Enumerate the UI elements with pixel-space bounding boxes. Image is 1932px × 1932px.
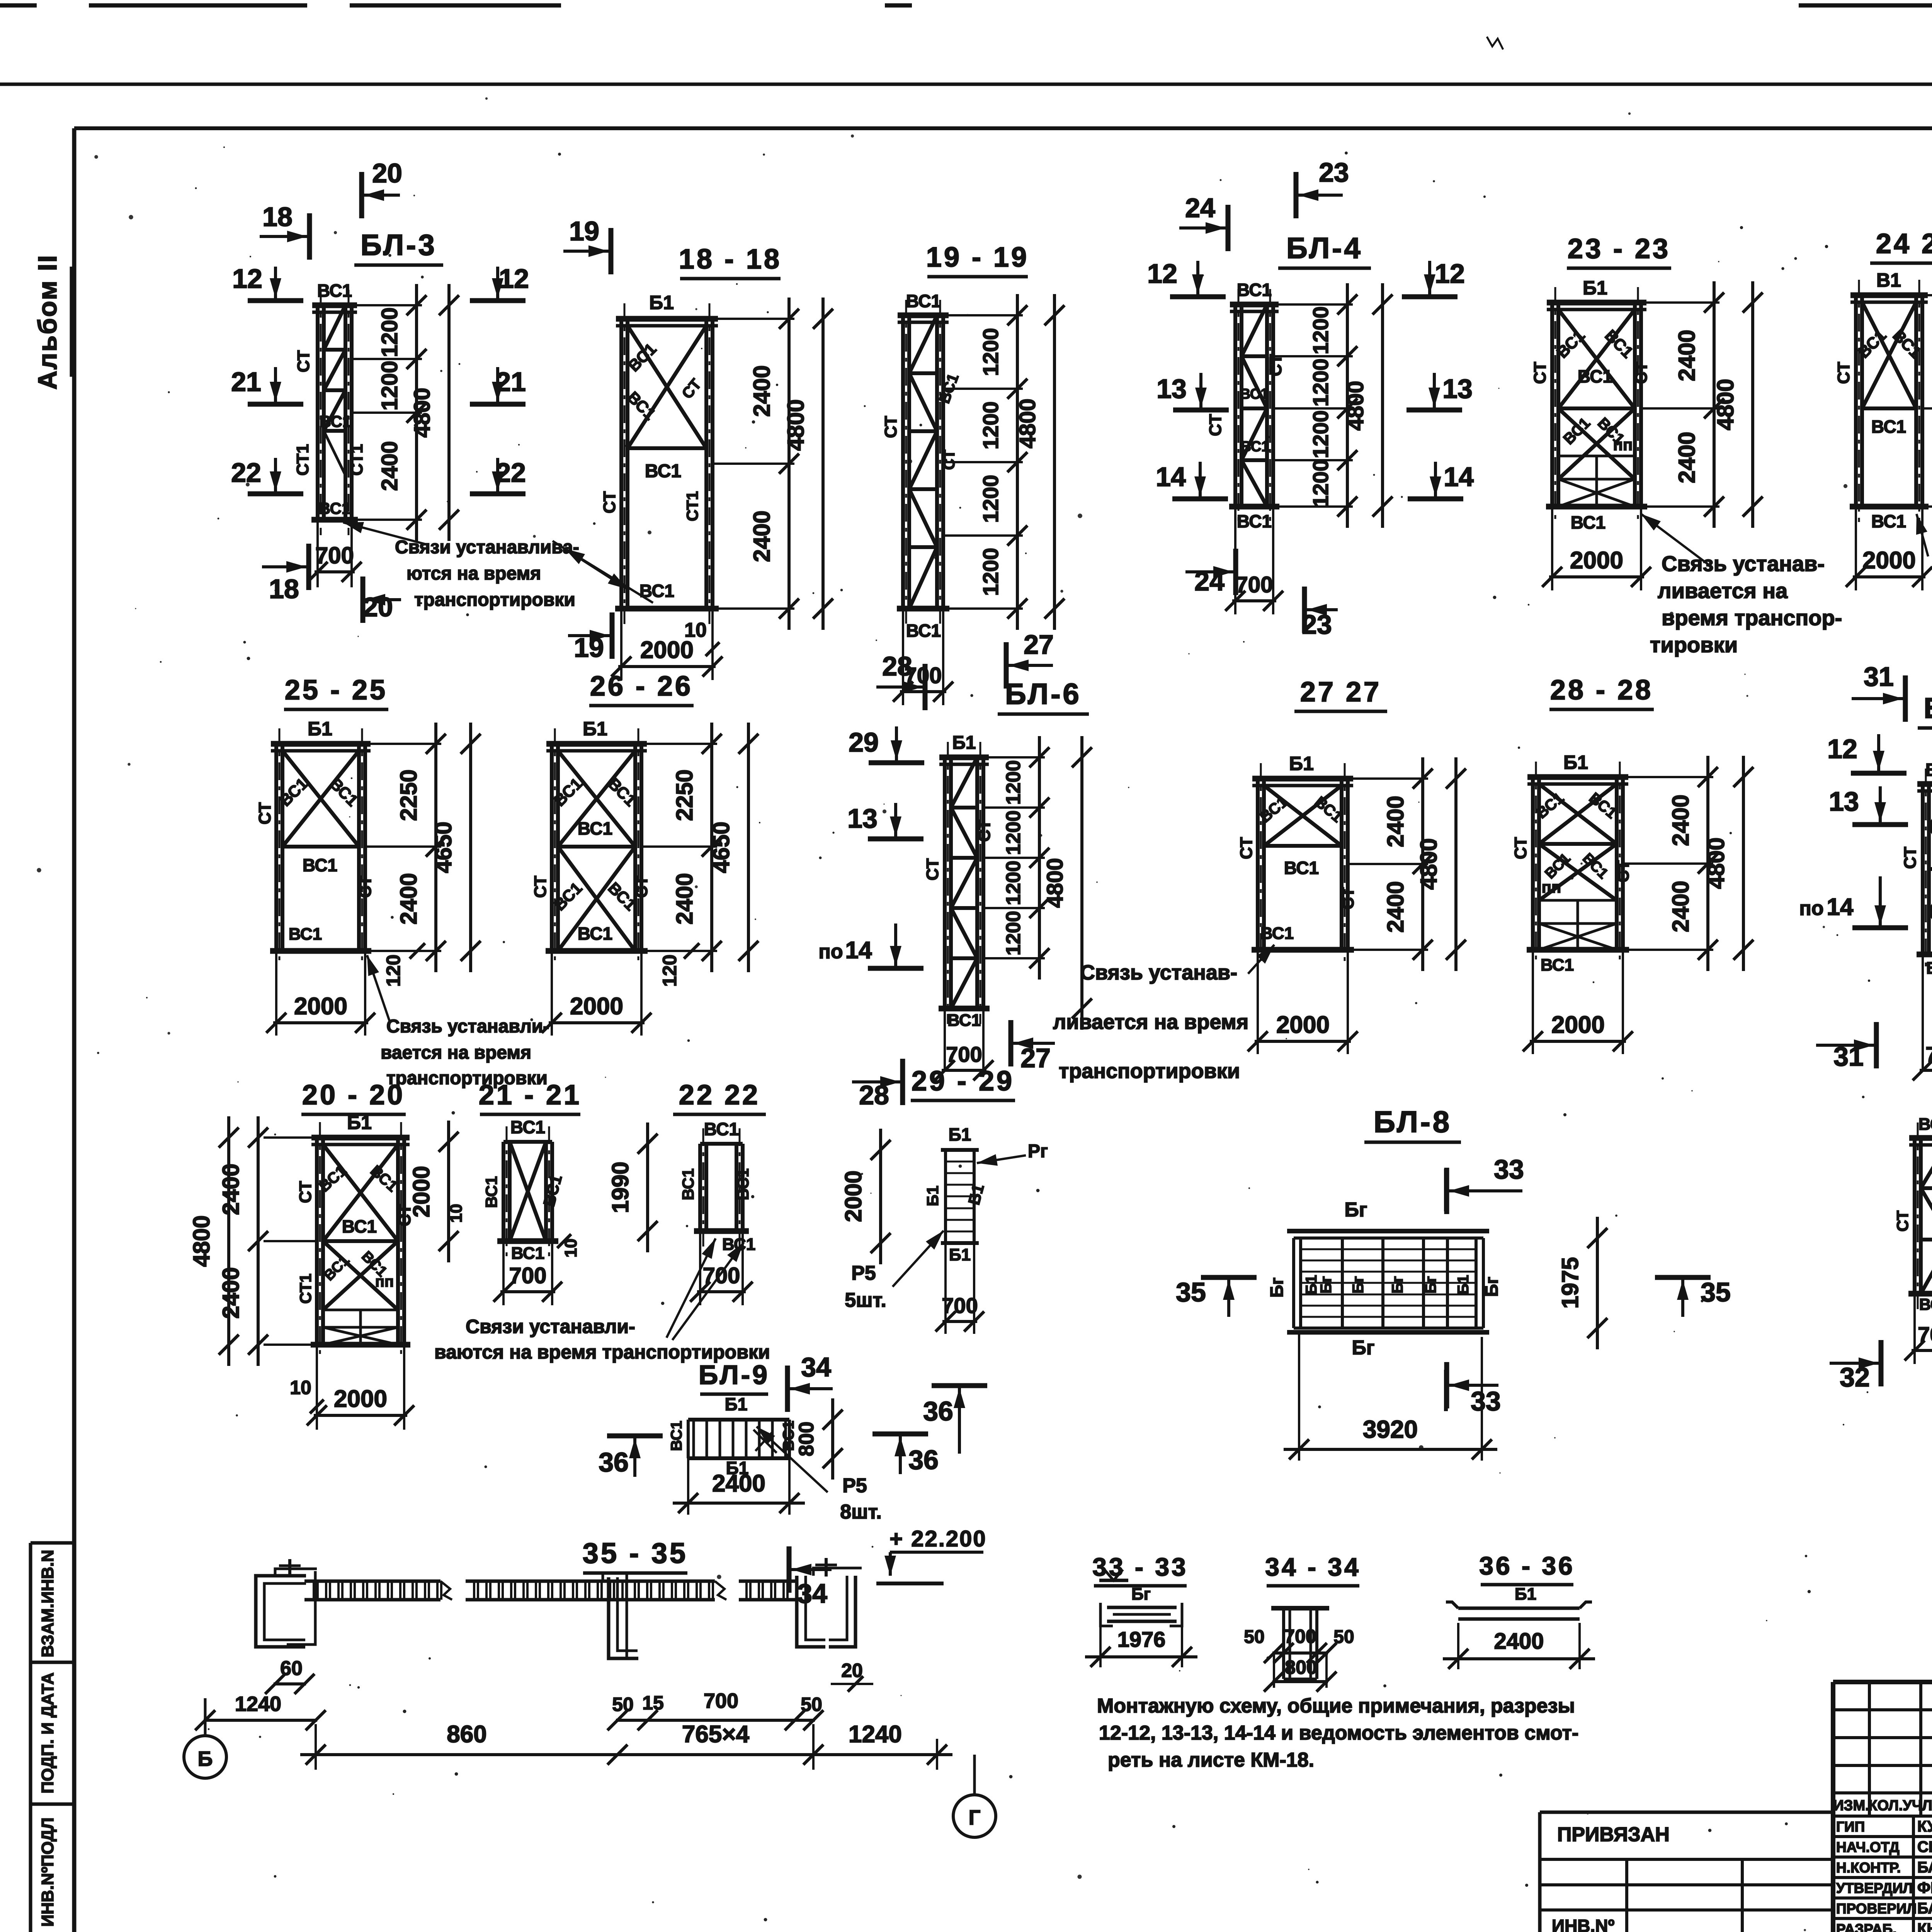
svg-text:18 - 18: 18 - 18	[679, 244, 782, 275]
svg-text:35: 35	[1176, 1277, 1206, 1307]
svg-text:35: 35	[1701, 1277, 1731, 1307]
svg-text:Б1: Б1	[1563, 752, 1588, 773]
svg-text:36: 36	[908, 1445, 939, 1475]
svg-text:ВС1: ВС1	[1240, 386, 1269, 402]
svg-text:22: 22	[231, 457, 261, 488]
svg-text:1200: 1200	[1308, 410, 1333, 459]
svg-text:СТ: СТ	[1632, 362, 1651, 384]
svg-text:700: 700	[942, 1293, 978, 1318]
svg-text:реть на листе КМ-18.: реть на листе КМ-18.	[1108, 1749, 1314, 1771]
svg-text:ВС1: ВС1	[1578, 366, 1612, 386]
svg-text:Бг: Бг	[1350, 1276, 1367, 1293]
svg-text:СТ: СТ	[1531, 362, 1549, 384]
svg-text:2400: 2400	[218, 1267, 244, 1318]
svg-text:700: 700	[509, 1263, 547, 1288]
svg-text:СТ: СТ	[600, 491, 619, 514]
svg-text:1200: 1200	[1308, 359, 1333, 407]
svg-text:СТ: СТ	[1206, 414, 1225, 436]
svg-text:ВС1: ВС1	[679, 1168, 697, 1200]
svg-text:ются на время: ются на время	[406, 563, 541, 584]
svg-text:ПРОВЕРИЛ: ПРОВЕРИЛ	[1836, 1901, 1917, 1917]
svg-text:2000: 2000	[570, 993, 623, 1020]
svg-text:2400: 2400	[1674, 330, 1700, 381]
svg-text:Н.КОНТР.: Н.КОНТР.	[1836, 1860, 1901, 1876]
svg-text:Бг: Бг	[1131, 1585, 1151, 1604]
svg-text:29: 29	[849, 727, 879, 757]
svg-text:СТ: СТ	[294, 350, 313, 372]
svg-text:ГИП: ГИП	[1836, 1819, 1865, 1835]
svg-text:Б1: Б1	[725, 1394, 748, 1414]
svg-text:2000: 2000	[294, 993, 347, 1020]
svg-text:120: 120	[383, 954, 404, 986]
svg-text:2000: 2000	[640, 637, 694, 663]
svg-text:1200: 1200	[978, 475, 1003, 523]
svg-text:860: 860	[447, 1721, 486, 1748]
svg-text:23: 23	[1319, 157, 1349, 187]
svg-text:2000: 2000	[408, 1166, 434, 1217]
svg-text:36: 36	[923, 1396, 953, 1426]
svg-text:БЛ-3: БЛ-3	[361, 229, 437, 262]
svg-text:50: 50	[612, 1694, 634, 1715]
svg-text:ПОДП. И ДАТА: ПОДП. И ДАТА	[38, 1672, 57, 1793]
svg-text:БЛ-6: БЛ-6	[1005, 678, 1082, 711]
svg-text:Бг: Бг	[1344, 1199, 1367, 1221]
svg-text:СТ1: СТ1	[296, 1274, 315, 1304]
svg-text:Б1: Б1	[1583, 277, 1607, 299]
svg-text:ВС1: ВС1	[1871, 511, 1906, 531]
svg-text:ИНВ.Nº: ИНВ.Nº	[1552, 1916, 1615, 1932]
svg-text:СТ: СТ	[356, 876, 375, 898]
svg-text:14: 14	[1156, 462, 1186, 492]
svg-text:2000: 2000	[1551, 1012, 1605, 1038]
svg-text:БАБУРИН: БАБУРИН	[1917, 1900, 1932, 1917]
svg-text:4800: 4800	[410, 388, 435, 437]
svg-text:700: 700	[704, 1689, 738, 1713]
svg-text:СТ: СТ	[255, 802, 274, 825]
svg-text:ФЕДОТОВ: ФЕДОТОВ	[1917, 1879, 1932, 1896]
svg-text:700: 700	[1236, 572, 1273, 597]
svg-text:4650: 4650	[430, 821, 456, 873]
svg-text:14: 14	[1827, 894, 1854, 920]
svg-text:4800: 4800	[1713, 379, 1738, 430]
svg-text:Связь устанав-: Связь устанав-	[1080, 961, 1237, 984]
svg-text:700: 700	[1925, 1042, 1932, 1066]
svg-text:СЕВОСТЬЯНОВ: СЕВОСТЬЯНОВ	[1917, 1838, 1932, 1855]
svg-text:Бг: Бг	[1481, 1277, 1502, 1297]
svg-text:РАЗРАБ.: РАЗРАБ.	[1836, 1921, 1896, 1932]
svg-text:Б1: Б1	[308, 718, 332, 740]
svg-text:ливается на время: ливается на время	[1053, 1010, 1248, 1034]
svg-text:700: 700	[1284, 1626, 1316, 1647]
svg-text:13: 13	[1829, 786, 1859, 816]
svg-text:2400: 2400	[672, 873, 697, 924]
svg-text:31: 31	[1864, 662, 1894, 692]
svg-text:ВС1: ВС1	[482, 1176, 500, 1208]
svg-text:Б1: Б1	[583, 718, 607, 740]
svg-text:1200: 1200	[1002, 861, 1025, 905]
svg-text:4800: 4800	[783, 399, 809, 451]
svg-text:2400: 2400	[749, 365, 775, 417]
svg-text:Бг: Бг	[1389, 1276, 1406, 1293]
svg-text:Г: Г	[969, 1806, 981, 1829]
svg-text:12: 12	[499, 264, 529, 294]
svg-text:СТ: СТ	[1511, 837, 1530, 859]
svg-text:21: 21	[231, 367, 261, 397]
svg-text:ВС1: ВС1	[511, 1244, 544, 1263]
svg-text:10: 10	[447, 1204, 466, 1223]
svg-text:34: 34	[801, 1352, 831, 1382]
svg-text:время транспор-: время транспор-	[1662, 605, 1842, 630]
svg-text:ВС1: ВС1	[289, 925, 322, 944]
svg-text:+ 22.200: + 22.200	[889, 1526, 986, 1551]
svg-text:1200: 1200	[377, 307, 402, 357]
svg-text:ВЗАМ.ИНВ.N: ВЗАМ.ИНВ.N	[38, 1550, 57, 1658]
svg-text:12: 12	[232, 264, 262, 294]
svg-text:50: 50	[1244, 1627, 1264, 1647]
svg-text:ВС1: ВС1	[1918, 1115, 1932, 1134]
svg-text:СТ: СТ	[1893, 1210, 1912, 1231]
svg-text:1200: 1200	[377, 361, 402, 410]
svg-text:СТ: СТ	[1338, 887, 1357, 910]
svg-text:ВС1: ВС1	[510, 1117, 545, 1137]
svg-text:4800: 4800	[1015, 398, 1040, 448]
svg-text:тировки: тировки	[1650, 633, 1738, 657]
svg-text:28: 28	[882, 651, 912, 681]
svg-text:БЛ-8: БЛ-8	[1374, 1105, 1452, 1139]
svg-text:ВС1: ВС1	[303, 855, 337, 875]
svg-text:34 - 34: 34 - 34	[1265, 1553, 1361, 1581]
svg-text:ВС1: ВС1	[578, 923, 612, 944]
svg-text:СТ: СТ	[1901, 847, 1920, 869]
svg-text:БАБУРИН: БАБУРИН	[1917, 1859, 1932, 1876]
svg-text:СТ: СТ	[881, 416, 900, 438]
svg-text:ВС1: ВС1	[1926, 959, 1932, 978]
svg-text:ВС1: ВС1	[906, 291, 941, 311]
svg-text:ПРИВЯЗАН: ПРИВЯЗАН	[1557, 1823, 1670, 1846]
svg-text:29 - 29: 29 - 29	[912, 1066, 1014, 1097]
svg-text:вается на время: вается на время	[381, 1043, 531, 1063]
svg-text:Бг: Бг	[1267, 1277, 1287, 1298]
svg-text:СТ: СТ	[632, 876, 651, 898]
svg-text:2400: 2400	[1383, 881, 1408, 932]
svg-text:СТ1: СТ1	[683, 491, 701, 521]
svg-text:18: 18	[262, 202, 293, 232]
svg-text:1240: 1240	[235, 1692, 281, 1716]
svg-text:СТ1: СТ1	[293, 444, 312, 476]
svg-text:ВС1: ВС1	[578, 818, 612, 838]
svg-text:5шт.: 5шт.	[845, 1289, 886, 1311]
svg-text:пп: пп	[1613, 435, 1633, 454]
svg-text:20: 20	[372, 158, 402, 188]
svg-text:ВС1: ВС1	[1237, 511, 1272, 531]
svg-text:ВС1: ВС1	[1919, 1295, 1932, 1313]
svg-text:13: 13	[1156, 374, 1187, 404]
svg-text:2400: 2400	[1383, 796, 1408, 847]
svg-text:1200: 1200	[978, 328, 1003, 376]
svg-text:800: 800	[1285, 1656, 1317, 1678]
svg-text:ВС1: ВС1	[704, 1119, 739, 1139]
svg-text:33: 33	[1494, 1154, 1524, 1184]
svg-text:пп: пп	[1542, 878, 1561, 896]
svg-text:ВС1: ВС1	[1260, 924, 1294, 943]
svg-text:ВС1: ВС1	[1871, 417, 1906, 437]
svg-text:В1: В1	[1876, 269, 1901, 291]
svg-text:18: 18	[269, 574, 299, 604]
svg-text:33 - 33: 33 - 33	[1092, 1553, 1188, 1581]
svg-text:Б1: Б1	[923, 1185, 942, 1206]
svg-text:ИЗМ.: ИЗМ.	[1833, 1798, 1869, 1814]
svg-text:26 - 26: 26 - 26	[590, 671, 693, 702]
svg-text:14: 14	[1444, 462, 1474, 492]
svg-text:ВС1: ВС1	[734, 1168, 752, 1200]
svg-text:23 - 23: 23 - 23	[1568, 233, 1670, 264]
svg-text:Связи устанавли-: Связи устанавли-	[466, 1316, 635, 1337]
svg-text:13: 13	[847, 803, 878, 833]
svg-text:Б1: Б1	[649, 292, 674, 313]
svg-text:Связи устанавлива-: Связи устанавлива-	[395, 537, 579, 558]
svg-text:по: по	[1799, 897, 1823, 920]
svg-text:700: 700	[1918, 1322, 1932, 1347]
svg-text:21 - 21: 21 - 21	[479, 1080, 582, 1111]
svg-text:24: 24	[1185, 193, 1215, 223]
svg-text:33: 33	[1471, 1386, 1501, 1416]
svg-text:КНЯЗЕВА: КНЯЗЕВА	[1917, 1920, 1932, 1932]
svg-text:4800: 4800	[1416, 838, 1442, 889]
svg-text:Б1: Б1	[949, 1245, 971, 1264]
svg-text:ВС1: ВС1	[906, 621, 941, 641]
svg-text:700: 700	[703, 1263, 740, 1288]
svg-text:Р5: Р5	[851, 1262, 876, 1284]
svg-text:10: 10	[290, 1377, 311, 1398]
svg-text:УТВЕРДИЛ: УТВЕРДИЛ	[1836, 1880, 1913, 1896]
svg-text:ВС1: ВС1	[947, 1011, 981, 1030]
svg-text:Б: Б	[198, 1747, 213, 1770]
svg-text:2400: 2400	[1668, 881, 1694, 932]
svg-text:Альбом II: Альбом II	[33, 254, 62, 390]
svg-text:20 - 20: 20 - 20	[302, 1080, 405, 1111]
svg-text:СТ: СТ	[923, 858, 942, 881]
svg-text:2000: 2000	[334, 1386, 387, 1412]
svg-text:765×4: 765×4	[682, 1721, 750, 1748]
svg-text:2250: 2250	[396, 769, 422, 821]
svg-text:1200: 1200	[1002, 760, 1025, 805]
svg-text:2000: 2000	[1570, 547, 1623, 574]
svg-text:4800: 4800	[1043, 858, 1068, 908]
svg-text:БЛ-9: БЛ-9	[699, 1360, 770, 1390]
svg-text:ВС1: ВС1	[1241, 439, 1270, 455]
svg-text:ВС1: ВС1	[319, 499, 350, 517]
svg-text:700: 700	[946, 1042, 982, 1066]
svg-text:700: 700	[315, 543, 354, 568]
svg-text:22 22: 22 22	[679, 1080, 760, 1111]
svg-text:12-12, 13-13, 14-14 и ведомост: 12-12, 13-13, 14-14 и ведомость элементо…	[1099, 1722, 1578, 1744]
svg-text:2000: 2000	[840, 1170, 866, 1222]
svg-text:2400: 2400	[377, 441, 402, 491]
svg-text:1200: 1200	[1308, 459, 1333, 508]
svg-text:15: 15	[642, 1692, 664, 1714]
svg-text:ВС1: ВС1	[1925, 760, 1932, 780]
svg-text:2400: 2400	[749, 510, 775, 562]
svg-text:СТ: СТ	[975, 820, 994, 842]
svg-text:2400: 2400	[218, 1163, 244, 1215]
svg-text:Бг: Бг	[1318, 1276, 1335, 1293]
svg-text:БЛ-7: БЛ-7	[1923, 692, 1932, 724]
svg-text:2400: 2400	[712, 1470, 765, 1497]
svg-text:по: по	[818, 940, 843, 963]
svg-text:транспортировки: транспортировки	[1059, 1060, 1240, 1083]
svg-text:24 24: 24 24	[1876, 228, 1932, 259]
svg-text:2000: 2000	[1862, 547, 1916, 574]
svg-text:4650: 4650	[708, 821, 734, 873]
svg-text:4800: 4800	[1343, 381, 1368, 430]
svg-text:120: 120	[659, 954, 680, 986]
svg-text:1975: 1975	[1557, 1257, 1583, 1308]
svg-text:2400: 2400	[1668, 794, 1694, 846]
svg-text:2400: 2400	[1674, 432, 1700, 483]
svg-text:19: 19	[569, 216, 599, 246]
svg-text:1200: 1200	[1002, 911, 1025, 956]
svg-text:3920: 3920	[1363, 1415, 1418, 1443]
svg-text:Связь устанавли-: Связь устанавли-	[386, 1016, 549, 1037]
svg-text:27: 27	[1020, 1043, 1051, 1073]
svg-text:СТ: СТ	[941, 450, 958, 470]
svg-text:СТ: СТ	[1834, 362, 1853, 384]
svg-text:Связь устанав-: Связь устанав-	[1662, 551, 1825, 576]
svg-text:Р5: Р5	[842, 1475, 867, 1497]
svg-text:КОЛ.УЧ: КОЛ.УЧ	[1868, 1798, 1922, 1814]
svg-text:ВС1: ВС1	[1237, 280, 1272, 300]
svg-text:Бг: Бг	[1422, 1276, 1439, 1293]
svg-text:27 27: 27 27	[1300, 677, 1381, 707]
svg-text:4800: 4800	[1703, 837, 1729, 889]
svg-text:ВС1: ВС1	[1541, 956, 1574, 975]
svg-text:транспортировки: транспортировки	[414, 590, 575, 610]
svg-text:36: 36	[599, 1447, 629, 1477]
svg-text:СТ: СТ	[296, 1181, 315, 1203]
svg-text:СТ: СТ	[1237, 837, 1256, 859]
svg-text:8шт.: 8шт.	[840, 1501, 882, 1523]
svg-text:1990: 1990	[607, 1162, 633, 1213]
svg-text:1200: 1200	[1308, 306, 1333, 355]
svg-text:12: 12	[1827, 734, 1857, 764]
svg-text:ЛИСТ: ЛИСТ	[1922, 1798, 1932, 1814]
svg-text:ИНВ.NºПОДЛ: ИНВ.NºПОДЛ	[38, 1818, 57, 1927]
svg-text:13: 13	[1442, 374, 1473, 404]
svg-text:28 - 28: 28 - 28	[1550, 675, 1653, 706]
svg-text:ВС1: ВС1	[317, 281, 352, 301]
svg-text:1976: 1976	[1117, 1627, 1166, 1651]
svg-text:2400: 2400	[1494, 1629, 1544, 1654]
svg-text:4800: 4800	[189, 1215, 214, 1267]
svg-text:36 - 36: 36 - 36	[1479, 1551, 1575, 1580]
svg-text:Рг: Рг	[1028, 1141, 1048, 1162]
svg-text:1200: 1200	[978, 548, 1003, 596]
svg-text:Монтажную схему, общие примеча: Монтажную схему, общие примечания, разре…	[1097, 1695, 1575, 1717]
svg-text:НАЧ.ОТД: НАЧ.ОТД	[1836, 1839, 1900, 1855]
svg-text:34: 34	[797, 1578, 827, 1609]
svg-text:Б1: Б1	[347, 1112, 372, 1133]
svg-text:2000: 2000	[1276, 1012, 1330, 1038]
svg-text:1200: 1200	[1002, 810, 1025, 855]
svg-text:ВС1: ВС1	[320, 412, 351, 430]
svg-text:1200: 1200	[978, 401, 1003, 450]
svg-text:Б1: Б1	[1455, 1275, 1472, 1295]
svg-text:12: 12	[1435, 259, 1465, 289]
svg-text:КУЗНЕЦОВ: КУЗНЕЦОВ	[1917, 1818, 1932, 1835]
svg-text:ВС1: ВС1	[1571, 512, 1605, 532]
svg-text:Б1: Б1	[952, 733, 976, 753]
svg-text:35 - 35: 35 - 35	[583, 1537, 688, 1569]
svg-text:19 - 19: 19 - 19	[926, 242, 1029, 273]
svg-text:2400: 2400	[396, 873, 422, 924]
svg-text:ливается на: ливается на	[1658, 578, 1788, 603]
svg-text:2250: 2250	[672, 769, 697, 821]
svg-text:Б1: Б1	[1289, 753, 1314, 774]
svg-text:Б1: Б1	[949, 1124, 971, 1145]
svg-text:ВС1: ВС1	[342, 1216, 377, 1236]
svg-text:Бг: Бг	[1352, 1337, 1374, 1359]
svg-text:БЛ-4: БЛ-4	[1286, 232, 1363, 265]
svg-text:25 - 25: 25 - 25	[285, 675, 388, 706]
svg-text:1240: 1240	[849, 1721, 902, 1748]
svg-text:Б1: Б1	[1515, 1585, 1536, 1604]
svg-text:пп: пп	[375, 1273, 394, 1290]
svg-text:800: 800	[795, 1422, 818, 1456]
svg-text:27: 27	[1024, 629, 1054, 660]
svg-text:СТ1: СТ1	[347, 444, 366, 476]
svg-text:12: 12	[1147, 259, 1177, 289]
svg-text:14: 14	[845, 937, 872, 964]
svg-text:СТ: СТ	[531, 876, 550, 898]
svg-text:ВС1: ВС1	[645, 461, 681, 481]
svg-text:ВС1: ВС1	[668, 1421, 685, 1451]
svg-text:ВС1: ВС1	[1284, 858, 1319, 878]
